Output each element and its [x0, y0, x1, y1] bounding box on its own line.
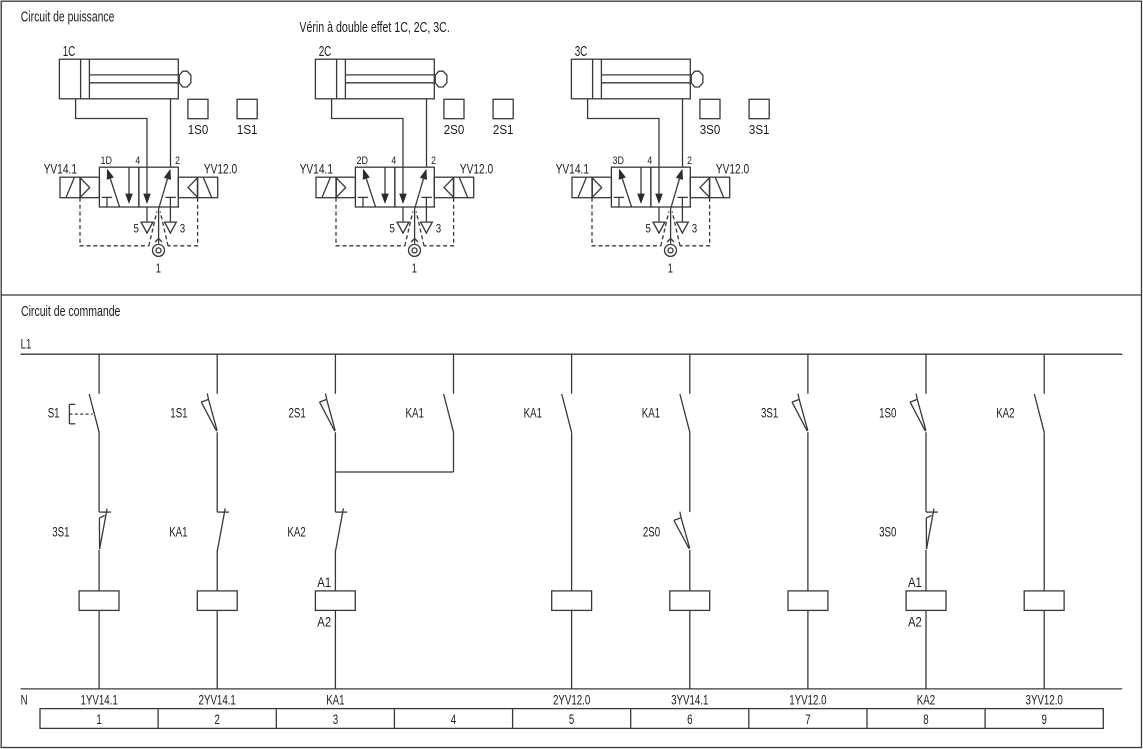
valve left-square flow path 2-3 (arrow down): [640, 167, 642, 194]
svg-text:1D: 1D: [101, 155, 113, 167]
svg-text:2: 2: [687, 155, 692, 167]
valve left-square flow path 1-4 (arrow up): [619, 169, 626, 180]
svg-text:YV12.0: YV12.0: [716, 161, 750, 177]
supply line port 1: [670, 209, 672, 243]
svg-text:1: 1: [156, 260, 161, 275]
svg-text:YV14.1: YV14.1: [556, 161, 590, 177]
svg-text:2: 2: [215, 712, 220, 727]
valve right-square blocked port T: [422, 196, 432, 198]
svg-text:3S0: 3S0: [879, 524, 896, 539]
contact KA1 (rung 4 top): [444, 394, 454, 432]
svg-text:8: 8: [923, 712, 928, 727]
svg-text:2YV14.1: 2YV14.1: [199, 692, 236, 707]
svg-text:KA1: KA1: [642, 406, 660, 421]
exhaust triangle 3: [421, 222, 433, 233]
svg-text:2C: 2C: [319, 44, 332, 60]
rung 1 wire to coil: [98, 550, 100, 591]
coil KA2 (rung 8): [906, 591, 946, 611]
sensor 3S1: [749, 99, 769, 118]
svg-text:4: 4: [135, 155, 140, 167]
valve right-square flow path 1-2 (arrow up): [420, 169, 427, 180]
contact KA1 (rung 6 top): [680, 394, 690, 432]
svg-text:1C: 1C: [63, 44, 76, 60]
svg-text:3: 3: [436, 222, 442, 236]
valve 2V body right square: [395, 167, 434, 207]
rung 5 wire to coil: [571, 432, 573, 591]
svg-text:KA1: KA1: [524, 406, 542, 421]
rung 2 wire to N: [216, 610, 218, 689]
svg-text:A1: A1: [908, 575, 922, 590]
valve right-square flow path 4-5 (arrow down): [402, 167, 404, 194]
supply source circle: [153, 244, 165, 256]
wire cylinder right port to valve port 2: [426, 99, 428, 167]
rung 1 wire from L1: [98, 354, 100, 394]
svg-text:3S1: 3S1: [749, 122, 770, 137]
valve left-square flow path 1-4 (arrow up): [107, 169, 114, 180]
rung 6 wire from L1: [689, 354, 691, 394]
wire cylinder left port to valve port 4: [588, 99, 659, 167]
wire cylinder right port to valve port 2: [682, 99, 684, 167]
exhaust line port 5: [146, 207, 148, 222]
rung 4 wire down: [453, 432, 455, 472]
svg-text:Circuit de commande: Circuit de commande: [21, 304, 120, 320]
svg-text:1: 1: [412, 260, 417, 275]
valve 3V body left square: [611, 167, 651, 207]
valve 2V body left square: [355, 167, 395, 207]
svg-text:KA1: KA1: [169, 524, 187, 539]
svg-text:3C: 3C: [575, 44, 588, 60]
valve right-square flow path 1-2 (arrow up): [164, 169, 171, 180]
rung 5 wire to N: [571, 610, 573, 689]
coil 2YV14.1 (rung 2): [197, 591, 237, 611]
supply line port 1: [158, 209, 160, 243]
valve right-square flow path 4-5 (arrow down): [146, 167, 148, 194]
cylinder 2C: [315, 59, 434, 99]
contact S1 (rung 1 top): [89, 394, 99, 432]
svg-text:3S1: 3S1: [761, 406, 778, 421]
svg-text:1: 1: [668, 260, 673, 275]
svg-text:4: 4: [391, 155, 396, 167]
valve left-square flow path 1-4 (arrow up): [363, 169, 370, 180]
coil 1YV14.1 (rung 1): [79, 591, 119, 611]
pilot line dashed left: [336, 198, 405, 246]
contact 3S0 (rung 8 bottom): [926, 511, 938, 513]
svg-text:3S0: 3S0: [700, 122, 721, 137]
svg-text:A2: A2: [317, 615, 331, 630]
sensor 2S0: [444, 99, 464, 118]
svg-text:A2: A2: [908, 615, 922, 630]
cylinder 2C rod end: [435, 71, 447, 87]
coil 3YV14.1 (rung 6): [670, 591, 710, 611]
svg-text:YV14.1: YV14.1: [300, 161, 334, 177]
contact 1S1 (rung 2 top): [201, 402, 216, 431]
pilot solenoid YV12.0: [434, 177, 473, 198]
rung 8 wire from L1: [925, 354, 927, 394]
svg-text:5: 5: [134, 222, 140, 236]
svg-text:L1: L1: [21, 337, 32, 352]
supply line port 1: [414, 209, 416, 243]
svg-text:1YV12.0: 1YV12.0: [789, 692, 826, 707]
svg-text:2S1: 2S1: [493, 122, 514, 137]
coil 1YV12.0 (rung 7): [788, 591, 828, 611]
contact KA2 (rung 3 bottom): [335, 511, 347, 513]
coil KA1 (rung 3): [315, 591, 355, 611]
svg-text:9: 9: [1042, 712, 1047, 727]
sensor 2S1: [493, 99, 513, 118]
svg-text:7: 7: [805, 712, 810, 727]
valve left-square flow path 2-3 (arrow down): [384, 167, 386, 194]
svg-text:3: 3: [692, 222, 698, 236]
rung 6 wire to N: [689, 610, 691, 689]
rung 9 wire from L1: [1043, 354, 1045, 394]
exhaust triangle 5: [397, 222, 409, 233]
valve left-square blocked port T: [358, 196, 368, 198]
svg-text:1S1: 1S1: [170, 406, 187, 421]
svg-text:5: 5: [390, 222, 396, 236]
exhaust triangle 5: [653, 222, 665, 233]
branch wire rung 4 to rung 3: [335, 471, 453, 473]
rung 4 wire from L1: [453, 354, 455, 394]
svg-text:2: 2: [175, 155, 180, 167]
svg-text:YV12.0: YV12.0: [460, 161, 494, 177]
rung 2 wire to coil: [216, 550, 218, 591]
exhaust line port 5: [402, 207, 404, 222]
exhaust triangle 3: [165, 222, 177, 233]
svg-text:5: 5: [569, 712, 574, 727]
svg-text:KA1: KA1: [406, 406, 424, 421]
pilot solenoid YV12.0: [178, 177, 217, 198]
svg-text:4: 4: [451, 712, 457, 727]
svg-text:Vérin à double effet 1C, 2C, 3: Vérin à double effet 1C, 2C, 3C.: [299, 20, 449, 36]
coil 3YV12.0 (rung 9): [1024, 591, 1064, 611]
valve 1V body right square: [139, 167, 178, 207]
valve left-square blocked port T: [614, 196, 624, 198]
svg-text:1YV14.1: 1YV14.1: [80, 692, 117, 707]
svg-text:1S0: 1S0: [879, 406, 896, 421]
valve 3V body right square: [651, 167, 690, 207]
cylinder 1C: [59, 59, 178, 99]
supply source circle: [665, 244, 677, 256]
rung 7 wire to coil: [807, 432, 809, 591]
rung 3 wire to coil: [334, 550, 336, 591]
sensor 1S1: [237, 99, 257, 118]
pilot line dashed right: [168, 198, 198, 246]
pilot solenoid YV14.1: [316, 177, 355, 198]
rung 9 wire to coil: [1043, 432, 1045, 591]
pilot line dashed left: [80, 198, 149, 246]
rung 9 wire to N: [1043, 610, 1045, 689]
svg-text:1: 1: [96, 712, 101, 727]
rung 6 wire between contacts: [689, 432, 691, 512]
svg-text:KA2: KA2: [996, 406, 1014, 421]
svg-text:2S0: 2S0: [444, 122, 465, 137]
contact KA2 (rung 9 top): [1034, 394, 1044, 432]
exhaust line port 5: [658, 207, 660, 222]
rung 1 wire between contacts: [98, 432, 100, 512]
rung 8 wire to N: [925, 610, 927, 689]
contact 3S1 (rung 7 top): [792, 402, 807, 431]
exhaust triangle 5: [141, 222, 153, 233]
valve right-square blocked port T: [678, 196, 688, 198]
contact 1S0 (rung 8 top): [910, 402, 925, 431]
rung 1 wire to N: [98, 610, 100, 689]
contact KA1 (rung 2 bottom): [217, 511, 229, 513]
supply source circle: [409, 244, 421, 256]
rung 2 wire from L1: [216, 354, 218, 394]
valve right-square flow path 1-2 (arrow up): [676, 169, 683, 180]
terminal numbering table: [40, 709, 1103, 729]
svg-text:2YV12.0: 2YV12.0: [553, 692, 590, 707]
pilot solenoid YV14.1: [572, 177, 611, 198]
pilot solenoid YV14.1: [60, 177, 99, 198]
pilot line dashed left: [592, 198, 661, 246]
cylinder 3C: [571, 59, 690, 99]
contact 3S1 (rung 1 bottom): [99, 511, 111, 513]
svg-text:2S1: 2S1: [289, 406, 306, 421]
rail N: [21, 688, 1123, 690]
valve 1V body left square: [99, 167, 138, 207]
sensor 1S0: [188, 99, 208, 118]
svg-text:2S0: 2S0: [643, 524, 660, 539]
svg-text:3YV12.0: 3YV12.0: [1026, 692, 1063, 707]
rung 6 wire to coil: [689, 550, 691, 591]
valve right-square blocked port T: [166, 196, 176, 198]
svg-text:YV14.1: YV14.1: [44, 161, 78, 177]
rung 2 wire between contacts: [216, 432, 218, 512]
valve right-square flow path 4-5 (arrow down): [658, 167, 660, 194]
svg-text:3: 3: [180, 222, 186, 236]
rung 8 wire to coil: [925, 550, 927, 591]
exhaust line port 3: [425, 207, 427, 222]
exhaust line port 3: [681, 207, 683, 222]
svg-text:2: 2: [431, 155, 436, 167]
valve left-square blocked port T: [102, 196, 112, 198]
rung 3 wire between contacts: [334, 432, 336, 512]
svg-text:KA1: KA1: [326, 692, 344, 707]
svg-text:N: N: [21, 692, 28, 707]
exhaust triangle 3: [677, 222, 689, 233]
rail L1: [21, 353, 1123, 355]
wire cylinder left port to valve port 4: [76, 99, 147, 167]
pilot line dashed right: [424, 198, 454, 246]
contact 2S0 (rung 6 bottom): [674, 520, 689, 548]
svg-text:2D: 2D: [357, 155, 369, 167]
coil 2YV12.0 (rung 5): [552, 591, 592, 611]
wire cylinder right port to valve port 2: [170, 99, 172, 167]
rung 3 wire from L1: [334, 354, 336, 394]
svg-text:1S0: 1S0: [188, 122, 209, 137]
svg-text:3YV14.1: 3YV14.1: [671, 692, 708, 707]
rung 7 wire to N: [807, 610, 809, 689]
contact 2S1 (rung 3 top): [320, 402, 335, 431]
svg-text:KA2: KA2: [287, 524, 305, 539]
rung 5 wire from L1: [571, 354, 573, 394]
valve left-square flow path 2-3 (arrow down): [128, 167, 130, 194]
sensor 3S0: [700, 99, 720, 118]
svg-text:6: 6: [687, 712, 692, 727]
section divider: [1, 294, 1143, 296]
contact KA1 (rung 5 top): [562, 394, 572, 432]
exhaust line port 3: [169, 207, 171, 222]
pilot line dashed right: [680, 198, 710, 246]
wire cylinder left port to valve port 4: [332, 99, 403, 167]
svg-text:S1: S1: [48, 406, 60, 421]
rung 7 wire from L1: [807, 354, 809, 394]
cylinder 3C rod end: [691, 71, 703, 87]
svg-text:4: 4: [647, 155, 652, 167]
svg-text:A1: A1: [317, 575, 331, 590]
svg-text:3: 3: [333, 712, 338, 727]
cylinder 1C rod end: [179, 71, 191, 87]
rung 8 wire between contacts: [925, 432, 927, 512]
svg-text:KA2: KA2: [917, 692, 935, 707]
svg-text:5: 5: [646, 222, 652, 236]
svg-text:Circuit de puissance: Circuit de puissance: [21, 10, 115, 26]
svg-text:3S1: 3S1: [52, 524, 69, 539]
svg-text:3D: 3D: [613, 155, 625, 167]
pilot solenoid YV12.0: [690, 177, 729, 198]
svg-text:1S1: 1S1: [237, 122, 258, 137]
svg-text:YV12.0: YV12.0: [204, 161, 238, 177]
rung 3 wire to N: [334, 610, 336, 689]
